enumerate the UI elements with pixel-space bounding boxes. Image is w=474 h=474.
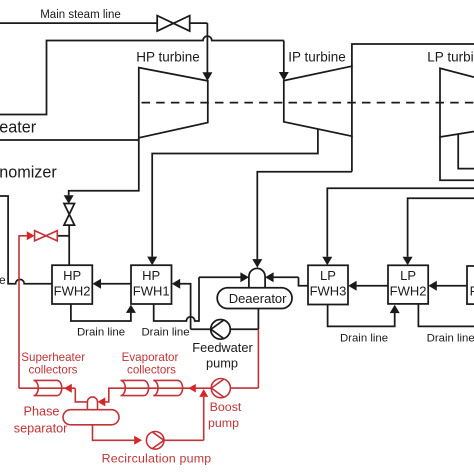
label: reheater (clipped) — [0, 118, 37, 136]
svg-text:collectors: collectors — [127, 363, 176, 376]
label: Evaporator collectors — [122, 351, 179, 376]
label: HP FWH2 — [54, 268, 91, 299]
pump: boost pump — [211, 379, 230, 398]
svg-text:e: e — [0, 273, 6, 287]
svg-text:Feedwater: Feedwater — [192, 340, 253, 355]
wire: recirculation pump discharge riser — [164, 397, 204, 440]
heater HP FWH2 — [52, 265, 92, 304]
collector: evaporator collectors cylinder 1 — [121, 380, 149, 395]
svg-text:FWH1: FWH1 — [133, 284, 170, 299]
label: Drain line (HP FWH2) — [77, 327, 125, 339]
wire: drain HP FWH2 to HP FWH1 — [71, 304, 136, 321]
separator dome — [87, 397, 97, 410]
wire: feedwater HP FWH2 to economizer (hop over red line) — [0, 196, 52, 284]
wire: HP exhaust to reheater — [0, 139, 139, 141]
wire: condensate LP FWH1 to LP FWH2 — [428, 281, 467, 291]
wire: LP extraction to LP FWH2 — [403, 198, 474, 265]
label: LP FWH3 — [310, 268, 347, 299]
wire: drain LP FWH3 to LP FWH2 — [328, 305, 400, 327]
label: LP FWH2 — [390, 268, 427, 299]
shaft line (dashed) — [142, 102, 474, 104]
valve V1: main steam stop valve — [157, 16, 190, 32]
wire: IP turbine inlet drop — [279, 41, 289, 81]
label: HP turbine — [136, 50, 200, 65]
label: Drain line (LP FWH2, clipped) — [427, 333, 474, 345]
heater HP FWH1 — [131, 265, 172, 304]
turbine LP (partial at right edge) — [440, 68, 474, 137]
wire: evaporator outlet into phase separator dome — [98, 388, 212, 406]
wire: deaerator outlet downcomer — [257, 309, 259, 330]
wire: HP turbine inlet downcomer — [202, 23, 212, 81]
wire: IP to LP crossover — [352, 44, 474, 66]
label: clipped letter e — [0, 273, 6, 287]
wire: IP exhaust down leg — [351, 136, 353, 172]
label: LP FWH1 (clipped) — [470, 268, 474, 299]
wire: phase separator recirculation to pump — [93, 425, 143, 445]
wire: phase separator steam to superheater collectors — [75, 388, 87, 402]
wire: feedwater pump discharge — [191, 328, 211, 330]
wire: valve to HP downcomer — [190, 22, 208, 24]
deaerator dome — [249, 268, 265, 287]
wire: valve to HP FWH2 top — [68, 225, 70, 265]
svg-text:FWH3: FWH3 — [310, 284, 347, 299]
pump: feedwater pump — [211, 320, 231, 340]
svg-text:pump: pump — [208, 416, 239, 430]
svg-text:FWH2: FWH2 — [390, 284, 427, 299]
svg-text:Phase: Phase — [24, 405, 60, 419]
svg-text:Evaporator: Evaporator — [122, 351, 179, 364]
svg-text:FWH1: FWH1 — [470, 284, 474, 299]
svg-text:Deaerator: Deaerator — [229, 291, 287, 306]
label: economizer (clipped) — [0, 163, 57, 181]
svg-text:HP turbine: HP turbine — [136, 50, 200, 65]
separator: phase separator vessel — [63, 410, 119, 425]
label: Boost pump — [208, 400, 242, 430]
label: Main steam line — [40, 9, 121, 21]
wire: condensate LP FWH2 to LP FWH3 — [348, 281, 388, 291]
wire: HP extraction to HP FWH2 — [64, 138, 139, 204]
pump: recirculation pump — [146, 432, 164, 450]
svg-text:Drain line: Drain line — [141, 327, 189, 339]
wire: HP FWH1 drain into deaerator dome (left arrow) — [199, 272, 249, 282]
svg-text:Recirculation pump: Recirculation pump — [102, 452, 212, 466]
label: Feedwater pump — [192, 340, 253, 370]
arrow: recirculation joins feed line — [199, 389, 208, 397]
wire: LP extraction to LP FWH3 — [322, 188, 474, 265]
wire: IP extraction to HP FWH1 — [147, 129, 318, 265]
svg-text:LP: LP — [320, 268, 336, 283]
label: Superheater collectors — [21, 351, 85, 376]
svg-text:separator: separator — [14, 421, 68, 435]
svg-text:Drain line: Drain line — [77, 327, 125, 339]
valve V3: red startup valve with arrow — [27, 231, 58, 241]
svg-text:LP turbine: LP turbine — [427, 50, 474, 65]
label: IP turbine — [288, 50, 346, 65]
svg-text:pump: pump — [206, 355, 238, 370]
wire: condensate from LP FWH3 to deaerator — [299, 277, 309, 286]
svg-text:eater: eater — [0, 118, 37, 136]
wire: feedwater pump suction from deaerator — [230, 328, 258, 330]
wire: red startup line from superheater header to valve — [19, 236, 27, 388]
wire: main steam line (left segment) — [0, 22, 157, 24]
label: Phase separator — [14, 405, 68, 436]
svg-text:LP: LP — [400, 268, 416, 283]
label: Recirculation pump — [102, 452, 212, 466]
wire: drain LP FWH2 to LP FWH1 — [418, 304, 474, 326]
svg-text:Boost: Boost — [210, 400, 242, 414]
svg-text:HP: HP — [142, 268, 160, 283]
label: Drain line (HP FWH1) — [141, 327, 189, 339]
wire: LP FWH3 condensate into deaerator dome (right arrow) — [265, 272, 298, 282]
wire: extraction to deaerator — [252, 172, 352, 268]
wire: LP extraction line A — [440, 137, 474, 180]
label: LP turbine (clipped) — [427, 50, 474, 65]
wire: boost pump suction from deaerator — [230, 329, 258, 388]
turbine HP — [139, 68, 208, 138]
svg-text:collectors: collectors — [29, 363, 78, 376]
turbine IP — [284, 66, 352, 136]
collector: evaporator collectors cylinder 2 — [153, 380, 182, 395]
wire: red main line through superheater collectors — [19, 384, 75, 393]
wire: feedwater pump to HP FWH1 — [172, 279, 191, 330]
deaerator vessel — [217, 288, 292, 309]
svg-text:Superheater: Superheater — [21, 351, 85, 364]
valve V2: extraction valve (hourglass) — [64, 204, 75, 226]
wire: black stub from red valve to extraction line — [57, 235, 69, 237]
svg-text:Main steam line: Main steam line — [40, 9, 121, 21]
svg-text:HP: HP — [63, 268, 81, 283]
svg-text:IP turbine: IP turbine — [288, 50, 346, 65]
svg-text:Drain line: Drain line — [427, 333, 474, 345]
svg-text:Drain line: Drain line — [340, 333, 388, 345]
collector: superheater collectors cylinder — [34, 380, 62, 395]
label: Deaerator — [229, 291, 287, 306]
wire: drain HP FWH1 to deaerator (hop over pump discharge) — [154, 277, 199, 321]
label: HP FWH1 — [133, 268, 170, 299]
wire: feedwater HP FWH1 to HP FWH2 — [93, 279, 131, 289]
heater LP FWH1 (partial at right edge) — [467, 266, 474, 304]
label: Drain line (LP FWH3) — [340, 333, 388, 345]
svg-text:nomizer: nomizer — [0, 163, 57, 181]
svg-text:FWH2: FWH2 — [54, 284, 91, 299]
wire: LP exhaust duct to condenser — [458, 134, 474, 169]
heater LP FWH2 — [388, 265, 428, 304]
wire: hot reheat line to IP turbine (with hop over main steam downcomer) — [0, 36, 284, 114]
arrow: boost pump discharge into evaporator collectors — [188, 384, 195, 393]
heater LP FWH3 — [308, 265, 348, 304]
